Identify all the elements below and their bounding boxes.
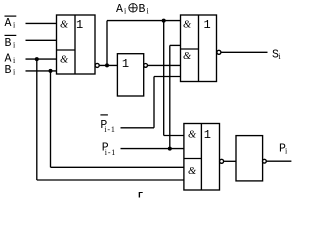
label B i [5, 64, 17, 77]
svg-text:A: A [5, 17, 12, 30]
label P i-1 [102, 142, 116, 157]
label NOT-P i-1 [100, 115, 115, 134]
inverter U2 output bubble [144, 64, 148, 68]
wire XOR into U4 top AND [164, 135, 184, 137]
wire NOT-P input run [121, 127, 155, 129]
wire A bottom run to U4 [37, 179, 184, 181]
wire NOT-P into U3 bottom AND [154, 76, 181, 78]
wire NOT-P vertical up [153, 77, 155, 128]
wire B bottom run to U4 [51, 166, 184, 168]
junction on wire A [35, 57, 39, 61]
junction on XOR top run [162, 19, 166, 23]
svg-text:i: i [13, 56, 16, 65]
svg-text:&: & [188, 130, 197, 141]
svg-text:1: 1 [122, 57, 129, 71]
svg-text:i: i [124, 6, 127, 15]
svg-text:i: i [13, 40, 16, 49]
AOI gate U1 output bubble [95, 63, 99, 67]
svg-text:i: i [279, 52, 282, 61]
svg-text:&: & [188, 166, 197, 177]
svg-text:i: i [13, 68, 16, 77]
svg-text:i: i [285, 146, 288, 155]
gate U1 labels [60, 18, 83, 66]
label Ai XOR Bi [116, 3, 150, 16]
gate U3 labels [183, 18, 211, 62]
svg-text:&: & [183, 20, 192, 31]
label A i [5, 52, 17, 65]
svg-text:i-1: i-1 [105, 148, 116, 157]
junction on wire B [49, 69, 53, 73]
inverter U2 box [117, 54, 143, 96]
svg-text:B: B [5, 37, 12, 50]
AOI gate U4 (carry Pi) box [184, 124, 220, 191]
wire U4 output to inverter U5 [224, 160, 236, 162]
svg-text:&: & [60, 20, 69, 31]
AOI gate U3 (sum Si) box [181, 15, 217, 82]
svg-text:i: i [13, 21, 16, 30]
wire NOT-B input [26, 39, 57, 41]
svg-text:1: 1 [204, 18, 211, 32]
svg-text:&: & [183, 51, 192, 62]
junction on wire P [168, 147, 172, 151]
inverter U5 output bubble [263, 159, 267, 163]
AOI gate U4 output bubble [220, 159, 224, 163]
label NOT-B i [5, 35, 17, 49]
wire B vertical drop [50, 71, 52, 167]
wire A input [26, 58, 57, 60]
AOI gate U1 (A XOR B generator) box [57, 15, 96, 74]
svg-text:1: 1 [204, 128, 211, 142]
wire A vertical drop [36, 59, 38, 180]
svg-text:г: г [138, 191, 144, 202]
label Si output [272, 49, 282, 62]
label NOT-A i [5, 16, 17, 30]
wire XOR vertical drop to U4 [163, 21, 165, 136]
svg-text:A: A [116, 3, 123, 16]
wire P input run to U4 [121, 148, 184, 150]
label Pi output [279, 143, 288, 156]
wire inverter U2 output to U3 [148, 64, 181, 66]
gate U4 labels [188, 128, 211, 177]
wire P vertical up [169, 45, 171, 148]
svg-text:B: B [5, 64, 12, 77]
wire Si output [221, 51, 268, 53]
svg-text:i-1: i-1 [104, 125, 115, 134]
junction node XOR [105, 63, 109, 67]
svg-text:1: 1 [76, 18, 83, 32]
inverter U5 box [236, 136, 263, 181]
wire XOR node vertical up [106, 21, 108, 66]
wire Pi output [266, 160, 291, 162]
wire U1 output to inverter U2 [99, 64, 117, 66]
svg-text:B: B [139, 3, 146, 16]
wire XOR node top run to U3 [107, 20, 181, 22]
AOI gate U3 output bubble [217, 50, 221, 54]
wire NOT-A input [26, 22, 57, 24]
svg-text:i: i [147, 6, 150, 15]
wire P into U3 top AND [170, 44, 181, 46]
wire B input [26, 70, 57, 72]
svg-text:&: & [60, 55, 69, 66]
